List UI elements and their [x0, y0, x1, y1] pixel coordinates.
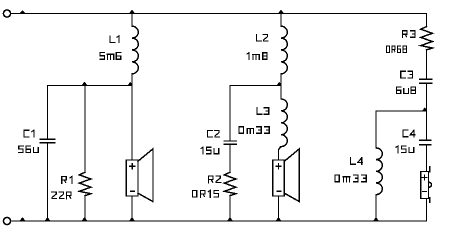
resistor R2	[224, 172, 236, 221]
wire C2 to L2/L3 node	[230, 85, 281, 87]
junction bottom rail LS2	[276, 217, 282, 220]
label R2	[209, 176, 221, 183]
capacitor C3	[420, 79, 432, 140]
capacitor C4	[420, 140, 431, 171]
label R1	[62, 176, 72, 183]
junction bottom rail LS1	[129, 217, 135, 220]
capacitor C2	[224, 86, 236, 173]
junction C3/C4 node	[422, 107, 427, 110]
resistor R3	[421, 14, 433, 79]
junction bottom rail C1	[45, 217, 51, 220]
input terminal bottom	[3, 217, 10, 224]
junction R1 top	[82, 82, 88, 85]
label C4	[403, 130, 415, 137]
inductor L2	[281, 14, 287, 86]
label C2	[207, 131, 219, 138]
junction bottom rail R1	[82, 217, 88, 220]
junction bottom rail R2	[227, 217, 233, 220]
input terminal top	[3, 10, 10, 17]
label 0R15	[192, 190, 218, 197]
label 0R68	[386, 46, 406, 53]
label L4	[351, 158, 363, 165]
speaker LS2	[273, 160, 285, 196]
junction top rail L2	[278, 10, 284, 13]
inductor L1	[132, 14, 138, 86]
junction L2 bottom	[277, 82, 282, 85]
junction top rail L1	[129, 10, 135, 13]
speaker LS3 (tweeter)	[421, 172, 429, 199]
label L1	[110, 36, 119, 43]
label C1	[24, 130, 34, 137]
label 0m33	[239, 127, 269, 134]
label 1m8	[247, 53, 267, 60]
label 56u	[19, 146, 39, 153]
resistor R1	[79, 86, 91, 222]
label 5m6	[100, 53, 121, 60]
wire node to L4	[376, 110, 427, 112]
label L2	[257, 35, 268, 42]
inductor L3	[279, 86, 288, 161]
junction bottom rail L4	[373, 217, 379, 220]
junction L1 bottom	[128, 82, 133, 85]
label 6u8	[396, 87, 415, 94]
junction bottom rail x22	[20, 217, 26, 220]
label 15ub	[396, 146, 414, 153]
wire node row left	[48, 85, 133, 87]
inductor L4	[376, 111, 382, 221]
label C3	[401, 71, 413, 78]
label R3	[403, 31, 415, 38]
junction top rail x22	[20, 10, 25, 13]
label 15u	[201, 147, 219, 154]
label 0m33b	[335, 175, 366, 182]
speaker LS1	[131, 86, 133, 161]
capacitor C1	[40, 86, 55, 222]
wire top rail	[11, 13, 427, 15]
label 22R	[52, 192, 71, 199]
label L3	[257, 108, 269, 115]
wire bottom rail	[11, 220, 427, 222]
